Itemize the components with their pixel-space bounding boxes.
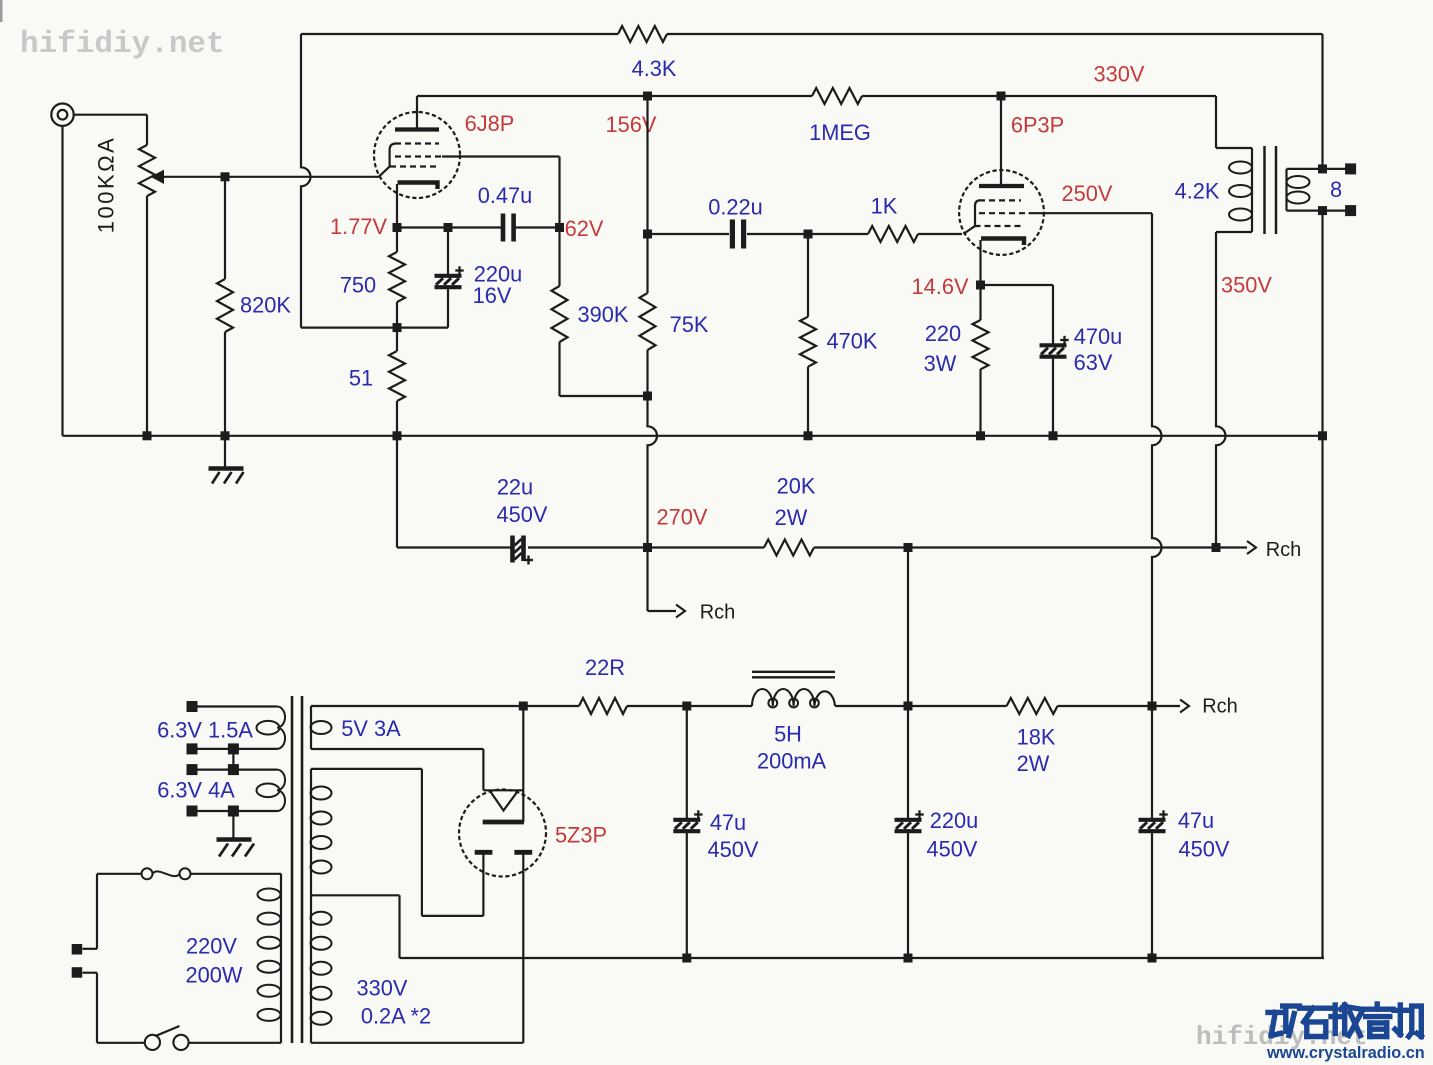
winding 330V upper [311, 769, 332, 895]
svg-text:14.6V: 14.6V [912, 274, 969, 299]
resistor 4.3K [618, 26, 677, 81]
node 220-3W ground [976, 431, 985, 440]
node 62V [555, 216, 604, 241]
label 330V [1094, 62, 1145, 87]
node 470K ground [804, 431, 813, 440]
transformer OPT secondary lead top [1287, 168, 1351, 170]
label 5Z3P [555, 823, 607, 848]
node 47u-a bottom [682, 954, 691, 963]
wire jack to pot [74, 114, 147, 116]
ground symbol signal [209, 436, 244, 484]
node speaker ground [1318, 431, 1327, 440]
wire ground rail [63, 435, 1323, 437]
wire feedback right drop [1321, 34, 1323, 169]
wire HV center tap [311, 895, 400, 958]
svg-text:0.47u: 0.47u [478, 183, 533, 208]
svg-text:hifidiy.net: hifidiy.net [20, 27, 225, 62]
svg-text:270V: 270V [657, 505, 708, 530]
node 47u-a top [682, 702, 691, 711]
node screen feed Rch [1148, 702, 1157, 711]
label 156V [606, 112, 657, 137]
wire feedback left drop [301, 34, 311, 328]
transformer OPT secondary winding [1287, 169, 1310, 211]
wire wiper to grid [164, 176, 379, 178]
svg-text:4.2K: 4.2K [1175, 179, 1220, 204]
svg-text:18K: 18K [1017, 725, 1056, 750]
svg-text:3W: 3W [924, 351, 957, 376]
wire screen feed [560, 395, 648, 397]
tap Rch left [648, 548, 736, 624]
tube 5Z3P filament [483, 790, 523, 810]
svg-text:47u: 47u [710, 810, 746, 835]
svg-text:6P3P: 6P3P [1011, 113, 1064, 138]
wire mains bottom [97, 1042, 281, 1044]
svg-text:220V: 220V [186, 934, 237, 959]
svg-text:8: 8 [1330, 177, 1342, 202]
capacitor 220u 16V [435, 228, 523, 328]
node speaker return [1318, 206, 1327, 215]
edge mark [0, 0, 3, 22]
svg-text:2W: 2W [775, 505, 808, 530]
resistor 390K [552, 228, 629, 397]
tube 6P3P plate [979, 96, 1024, 186]
wire heater link [232, 749, 234, 770]
tube 6J8P grid3 dashed [395, 142, 439, 144]
winding 6.3V 1.5A [157, 707, 285, 749]
tube 5Z3P cathode bar [483, 820, 524, 825]
svg-text:350V: 350V [1221, 273, 1272, 298]
wire mains top [97, 873, 281, 875]
tube 6P3P grid1 dashed [975, 225, 1022, 227]
winding 6.3V 4A [157, 770, 285, 811]
winding 5V 3A [311, 706, 484, 749]
choke 5H 200mA [752, 672, 835, 774]
tube 6J8P envelope [374, 112, 460, 198]
capacitor 0.22u [708, 195, 763, 249]
resistor 22R [579, 655, 627, 714]
svg-text:0.22u: 0.22u [708, 195, 763, 220]
svg-text:1MEG: 1MEG [809, 120, 871, 145]
tube 5Z3P anode right [514, 850, 532, 855]
capacitor 220u 450V [895, 706, 979, 958]
tube 6J8P cathode [398, 183, 438, 190]
fuse [142, 868, 191, 879]
label 100KOA [94, 136, 119, 234]
label 6P3P [1011, 113, 1064, 138]
terminal 6.3V-1.5A a [187, 701, 198, 712]
resistor 1MEG [809, 88, 871, 145]
wire coupling row [648, 233, 963, 235]
svg-text:6J8P: 6J8P [465, 111, 515, 136]
node 14.6V [912, 274, 985, 299]
tube 6P3P grid2 dashed [979, 212, 1029, 214]
node heater ground tap [228, 806, 239, 817]
resistor 51 [349, 328, 405, 436]
label 8 ohm [1330, 177, 1342, 202]
wire anode-left to HV top [311, 769, 483, 916]
svg-text:63V: 63V [1074, 350, 1113, 375]
node wiper 820K junction [221, 172, 230, 181]
watermark crystalradio url [1266, 1044, 1425, 1062]
logo crystalradio [1268, 1004, 1421, 1037]
transformer OPT primary lead top [1216, 96, 1252, 148]
svg-text:51: 51 [349, 366, 373, 391]
node rectifier output [519, 702, 528, 711]
svg-text:220u: 220u [930, 808, 979, 833]
node 6P3P plate junction [997, 92, 1006, 101]
node coupling tap [643, 230, 652, 239]
svg-text:5V 3A: 5V 3A [341, 716, 401, 741]
resistor 18K 2W [1007, 698, 1058, 776]
capacitor 47u 450V b [1139, 706, 1230, 958]
svg-text:Rch: Rch [1266, 539, 1302, 561]
node 220u bottom [904, 954, 913, 963]
svg-text:450V: 450V [497, 502, 548, 527]
tube 6J8P screen lead [442, 157, 560, 228]
resistor 220 3W [924, 285, 989, 436]
capacitor 22u 450V [497, 475, 548, 565]
node pot ground [143, 431, 152, 440]
label 6J8P [465, 111, 515, 136]
svg-text:750: 750 [340, 273, 376, 298]
transformer OPT core [1265, 146, 1277, 234]
node cathode divider [393, 323, 402, 332]
svg-text:200W: 200W [186, 963, 243, 988]
tube 6P3P cathode [981, 239, 1024, 246]
terminal plug pin1 [72, 944, 83, 955]
label 4.2K [1175, 179, 1220, 204]
resistor 20K 2W [764, 474, 816, 556]
svg-text:4.3K: 4.3K [632, 56, 677, 81]
terminal 6.3V-1.5A b [187, 743, 198, 754]
svg-text:Rch: Rch [1202, 696, 1238, 718]
tube 5Z3P envelope [459, 790, 546, 877]
svg-text:330V: 330V [357, 976, 408, 1001]
svg-text:47u: 47u [1178, 808, 1214, 833]
input jack [51, 104, 73, 126]
winding 330V lower [311, 895, 432, 1043]
wire bottom rail [400, 957, 1325, 959]
svg-text:Rch: Rch [700, 602, 736, 624]
watermark hifidiy bottom [1196, 1022, 1368, 1052]
ground symbol heater [217, 811, 255, 857]
node 270V [643, 505, 708, 552]
transformer OPT primary lead bottom [1216, 232, 1252, 548]
svg-text:200mA: 200mA [757, 749, 827, 774]
node 47u-b bottom [1148, 954, 1157, 963]
svg-text:75K: 75K [670, 312, 709, 337]
wire 270V row [397, 436, 1216, 548]
terminal speaker plus [1345, 163, 1356, 174]
node 820K ground [221, 431, 230, 440]
wire speaker return drop [1323, 211, 1325, 958]
svg-text:20K: 20K [777, 474, 816, 499]
svg-text:0.2A *2: 0.2A *2 [361, 1004, 431, 1029]
resistor 1K [868, 194, 918, 242]
svg-text:450V: 450V [708, 837, 759, 862]
node plate-load junction [643, 92, 652, 101]
svg-text:100KΩA: 100KΩA [94, 136, 119, 234]
label 350V [1221, 273, 1272, 298]
svg-text:22R: 22R [585, 655, 625, 680]
svg-text:1.77V: 1.77V [330, 214, 387, 239]
winding 220V primary [186, 874, 281, 1043]
tube 6J8P grid2 dashed [395, 155, 442, 157]
node 470u ground [1049, 431, 1058, 440]
resistor 470K [800, 234, 878, 436]
resistor 820K [217, 177, 291, 436]
transformer PT core [292, 696, 302, 1043]
node heater link b [228, 764, 239, 775]
tube 6P3P cathode lead [979, 240, 981, 285]
node bypass tap [444, 223, 453, 232]
node 20K out [904, 543, 913, 552]
wire anode-right to HV bottom [311, 855, 523, 1043]
node choke out [904, 702, 913, 711]
svg-text:470u: 470u [1074, 324, 1123, 349]
svg-text:6.3V 4A: 6.3V 4A [157, 778, 235, 803]
wire mains left bottom [83, 973, 98, 1043]
node feedback takeoff [1318, 164, 1327, 173]
node rectifier B+ takeoff [522, 706, 524, 822]
terminal 6.3V-4A b [187, 806, 198, 817]
transformer OPT secondary lead bottom [1287, 210, 1351, 212]
svg-text:470K: 470K [827, 329, 878, 354]
wire mains left top [83, 874, 98, 949]
wire cathode feedback link [301, 327, 448, 329]
wire jack ground drop [61, 126, 63, 436]
svg-text:330V: 330V [1094, 62, 1145, 87]
wire feedback top rail [301, 33, 1323, 35]
svg-text:www.crystalradio.cn: www.crystalradio.cn [1266, 1044, 1425, 1062]
node 75K bottom [643, 392, 652, 401]
svg-text:820K: 820K [240, 293, 291, 318]
terminal speaker minus [1345, 205, 1356, 216]
svg-text:1K: 1K [871, 194, 898, 219]
node grid-leak junction [804, 230, 813, 239]
capacitor 47u 450V a [673, 706, 759, 958]
node 1.77V [330, 214, 401, 239]
resistor 750 [340, 228, 405, 328]
node primary return [1212, 543, 1221, 552]
tube 6P3P grid3 dashed [979, 199, 1021, 201]
svg-text:22u: 22u [497, 475, 533, 500]
wire cathode row [397, 226, 560, 228]
svg-text:5Z3P: 5Z3P [555, 823, 607, 848]
tube 5Z3P anode left [475, 850, 493, 855]
svg-text:220: 220 [925, 321, 961, 346]
wire plate rail 156V [417, 95, 1216, 97]
svg-text:450V: 450V [927, 837, 978, 862]
svg-text:250V: 250V [1062, 181, 1113, 206]
capacitor 0.47u [478, 183, 533, 241]
tube 6J8P cathode lead [396, 184, 398, 228]
svg-text:156V: 156V [606, 112, 657, 137]
transformer OPT primary winding [1229, 148, 1252, 232]
tube 6P3P envelope [959, 170, 1044, 255]
wire choke row [311, 705, 1152, 707]
svg-text:16V: 16V [473, 283, 512, 308]
watermark hifidiy top [20, 27, 225, 62]
svg-text:450V: 450V [1179, 837, 1230, 862]
wire rectifier filament left [482, 749, 484, 790]
tube 6J8P grid1 dashed [390, 165, 439, 167]
label 250V [1062, 181, 1113, 206]
svg-text:5H: 5H [774, 722, 802, 747]
wire choke-out drop [907, 548, 909, 707]
capacitor 470u 63V [981, 285, 1123, 436]
tap Rch right [1152, 696, 1238, 718]
tube 6J8P grid shield bracket [379, 144, 396, 177]
terminal plug pin2 [72, 967, 83, 978]
terminal 6.3V-4A a [187, 764, 198, 775]
potentiometer 100K body [139, 115, 155, 436]
node heater link a [228, 743, 239, 754]
switch [145, 1026, 189, 1050]
potentiometer wiper arrow [151, 170, 165, 184]
tap Rch middle [1216, 539, 1301, 561]
tube 6P3P grid shield bracket [964, 200, 981, 234]
tube 6P3P screen lead [1029, 213, 1162, 706]
tube 6J8P plate [395, 96, 439, 130]
svg-text:2W: 2W [1017, 751, 1050, 776]
resistor 75K [640, 96, 709, 548]
svg-text:62V: 62V [565, 216, 604, 241]
node 51 ground [393, 431, 402, 440]
svg-text:390K: 390K [578, 302, 629, 327]
svg-text:6.3V 1.5A: 6.3V 1.5A [157, 718, 253, 743]
